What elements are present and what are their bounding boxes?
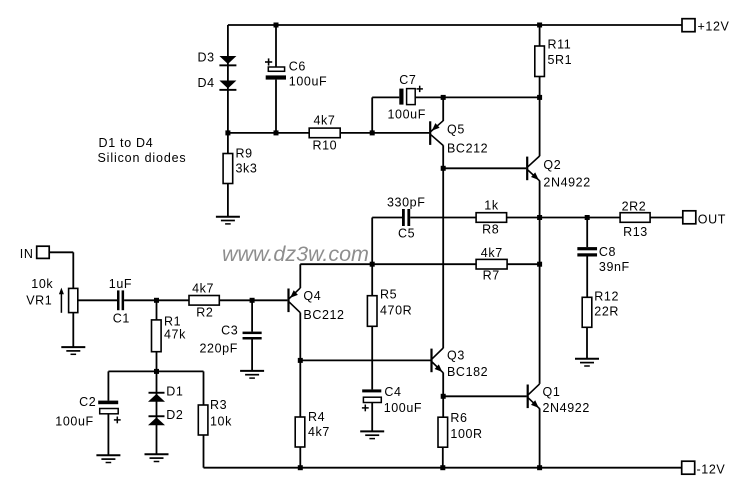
terminal OUT	[683, 211, 696, 224]
svg-text:5R1: 5R1	[548, 53, 573, 67]
junction Q1 emitter rail node	[537, 465, 542, 470]
capacitor C7	[399, 86, 423, 105]
svg-text:22R: 22R	[594, 305, 619, 319]
capacitor C6	[265, 58, 286, 79]
svg-text:C6: C6	[289, 60, 306, 74]
wire Q5 collector vertical	[442, 145, 444, 168]
svg-text:Q4: Q4	[303, 289, 321, 303]
resistor R10	[309, 128, 340, 138]
svg-text:-12V: -12V	[697, 463, 726, 477]
ground below D2	[145, 454, 169, 461]
wire R5 to C4	[371, 326, 373, 389]
wire R13 to OUT terminal	[650, 217, 683, 219]
junction R4 bottom rail node	[298, 465, 303, 470]
svg-text:100uF: 100uF	[289, 75, 327, 89]
resistor R12	[582, 297, 592, 327]
junction D4-R9 node	[225, 130, 230, 135]
junction R5 top node	[370, 262, 375, 267]
svg-text:R11: R11	[548, 38, 572, 52]
svg-text:C8: C8	[599, 245, 616, 259]
junction Q5 collector node	[441, 166, 446, 171]
ground below R12	[575, 359, 599, 366]
wire Q5 emitter vertical	[442, 97, 444, 121]
svg-text:Q2: Q2	[543, 158, 561, 172]
svg-text:100R: 100R	[450, 427, 482, 441]
resistor R11	[535, 46, 545, 77]
wire top +12V rail	[228, 24, 682, 26]
svg-text:D3: D3	[198, 51, 215, 65]
wire Q1 base	[443, 395, 527, 397]
svg-text:1k: 1k	[484, 199, 499, 213]
wire Q4 emitter vertical	[299, 264, 301, 288]
wire R4 lower stem	[299, 447, 301, 468]
transistor Q5	[429, 121, 443, 146]
junction C6 bottom node	[274, 130, 279, 135]
wire Q1 emitter vertical	[539, 409, 541, 468]
wire R5 upper stem	[371, 264, 373, 296]
svg-text:R7: R7	[483, 269, 500, 283]
wire R9 lower stem	[227, 184, 229, 217]
resistor R5	[367, 296, 377, 327]
wire C2 lower stem	[107, 414, 109, 456]
transistor Q1	[527, 384, 540, 409]
junction C3 top node	[250, 298, 255, 303]
svg-text:Q5: Q5	[447, 123, 465, 137]
resistor R7	[476, 259, 507, 269]
svg-text:BC212: BC212	[303, 308, 344, 322]
svg-text:BC182: BC182	[447, 365, 488, 379]
svg-text:C7: C7	[399, 73, 416, 87]
svg-text:220pF: 220pF	[200, 342, 238, 356]
diode D2	[148, 415, 165, 425]
svg-text:4k7: 4k7	[481, 246, 503, 260]
wire C8 lower stem	[586, 257, 588, 298]
svg-text:1uF: 1uF	[109, 277, 132, 291]
wire R9 upper stem	[227, 133, 229, 154]
svg-text:R10: R10	[313, 139, 338, 153]
wire Q3 emitter vertical	[442, 373, 444, 397]
capacitor C5	[402, 209, 410, 226]
wire R1 lower stem	[156, 352, 158, 372]
wire R8 to out node	[507, 217, 540, 219]
svg-text:C1: C1	[113, 312, 130, 326]
wire X372 C5-to-R7 segment	[371, 218, 373, 265]
resistor R4	[295, 417, 305, 447]
diode D3	[219, 56, 236, 66]
svg-text:R9: R9	[236, 147, 253, 161]
svg-text:+12V: +12V	[698, 20, 730, 34]
svg-text:2N4922: 2N4922	[543, 176, 590, 190]
wire R2 to Q4 base	[219, 299, 287, 301]
wire C4 to ground	[371, 403, 373, 432]
svg-text:330pF: 330pF	[387, 196, 425, 210]
svg-text:47k: 47k	[164, 328, 186, 342]
svg-text:D1 to D4: D1 to D4	[99, 136, 154, 150]
ground below C4	[360, 431, 384, 438]
wire node A to R2	[157, 299, 190, 301]
wire C3 lower stem	[251, 340, 253, 371]
svg-text:BC212: BC212	[447, 142, 488, 156]
wire Q3 collector vertical	[442, 168, 444, 348]
wire R7 row right	[507, 263, 539, 265]
svg-text:2R2: 2R2	[622, 200, 647, 214]
junction node A C1-R1-R2	[154, 298, 159, 303]
svg-text:4k7: 4k7	[314, 114, 336, 128]
svg-text:C2: C2	[79, 395, 96, 409]
resistor R13	[620, 213, 650, 223]
diode D4	[219, 81, 236, 91]
wire out row to C8 node	[540, 217, 621, 219]
junction C8 top node	[585, 215, 590, 220]
ground below C3	[240, 371, 264, 378]
capacitor C2	[98, 401, 121, 424]
wire X372 upper segment	[371, 97, 373, 132]
wire VR1 lower stem	[72, 313, 74, 348]
wire Q4 collector vertical	[299, 313, 301, 417]
wire X54 out-to-Q1 segment	[539, 218, 541, 384]
svg-text:OUT: OUT	[698, 213, 726, 227]
junction C6 top rail	[274, 23, 279, 28]
svg-text:2N4922: 2N4922	[543, 401, 590, 415]
svg-text:470R: 470R	[380, 304, 412, 318]
wire R1 upper stem	[156, 300, 158, 320]
svg-text:3k3: 3k3	[236, 162, 258, 176]
svg-text:39nF: 39nF	[599, 260, 630, 274]
wire R3 lower stem	[203, 435, 205, 468]
resistor R2	[189, 296, 219, 306]
svg-text:R8: R8	[482, 223, 499, 237]
junction OUT node	[537, 215, 542, 220]
svg-text:R12: R12	[594, 290, 619, 304]
wire R3 upper stem	[203, 371, 205, 405]
junction R11 bottom node	[537, 95, 542, 100]
wire R6 lower stem	[442, 447, 444, 468]
svg-text:R2: R2	[196, 306, 213, 320]
ground below C2	[96, 455, 120, 462]
resistor R6	[438, 417, 448, 447]
svg-text:R4: R4	[308, 410, 325, 424]
svg-text:4k7: 4k7	[308, 425, 330, 439]
wire R12 lower stem	[586, 327, 588, 359]
wire D1-D2 chain	[156, 371, 158, 454]
svg-text:IN: IN	[20, 247, 34, 261]
wire Q2 emitter vertical	[539, 181, 541, 218]
wire R10 row left	[228, 132, 309, 134]
capacitor C1	[117, 290, 124, 310]
wire bottom -12V rail	[204, 467, 683, 469]
svg-text:D2: D2	[166, 408, 183, 422]
wire Q4 emitter row	[300, 263, 372, 265]
transistor Q4	[287, 288, 300, 313]
junction R11 top rail	[537, 23, 542, 28]
svg-text:C4: C4	[384, 385, 401, 399]
svg-text:R3: R3	[210, 398, 227, 412]
wire C6 lower stem	[275, 80, 277, 133]
wire C8 upper stem	[586, 218, 588, 248]
wire C6 upper stem	[275, 25, 277, 67]
wire R6 upper stem	[442, 396, 444, 417]
svg-text:C5: C5	[398, 227, 415, 241]
wire D3-D4 chain vertical	[227, 25, 229, 133]
wire Q2 base	[443, 167, 526, 169]
wire R10 row right	[340, 132, 372, 134]
capacitor C3	[243, 332, 262, 340]
resistor R3	[198, 405, 208, 435]
wire C1 to node A	[124, 299, 156, 301]
wire C2 upper stem	[107, 371, 109, 400]
svg-text:10k: 10k	[210, 415, 232, 429]
svg-text:4k7: 4k7	[192, 282, 214, 296]
wire C3 upper stem	[251, 300, 253, 331]
ground below R9	[216, 217, 240, 224]
capacitor C4	[362, 389, 381, 411]
potentiometer VR1	[59, 288, 78, 313]
svg-text:Q3: Q3	[447, 349, 465, 363]
svg-text:100uF: 100uF	[388, 108, 426, 122]
svg-text:R1: R1	[164, 315, 181, 329]
svg-text:D4: D4	[198, 76, 215, 90]
resistor R9	[223, 154, 233, 184]
svg-text:www.dz3w.com: www.dz3w.com	[222, 242, 369, 266]
junction C7-Q5 emitter node	[441, 95, 446, 100]
svg-text:R6: R6	[450, 411, 467, 425]
svg-text:VR1: VR1	[26, 294, 52, 308]
terminal -12V	[682, 461, 695, 474]
wire C7 row right	[415, 96, 539, 98]
svg-text:Silicon diodes: Silicon diodes	[98, 151, 187, 165]
wire Q5 base	[372, 132, 429, 134]
capacitor C8	[577, 247, 597, 256]
wire bias row	[108, 370, 203, 372]
terminal IN	[37, 246, 50, 258]
wire Q3 base	[300, 359, 430, 361]
terminal +12V	[682, 19, 695, 32]
wire IN to VR1 horizontal	[49, 251, 73, 253]
wire IN to VR1 vertical	[72, 252, 74, 288]
resistor R8	[476, 213, 507, 223]
svg-text:R13: R13	[623, 225, 648, 239]
wire C5 row left	[372, 217, 402, 219]
wire VR1 wiper to C1	[78, 299, 117, 301]
junction R6 bottom rail node	[440, 465, 445, 470]
resistor R1	[152, 320, 162, 352]
svg-text:Q1: Q1	[543, 385, 561, 399]
wire R11 upper stem	[539, 25, 541, 46]
junction Q3 emitter node	[441, 394, 446, 399]
svg-text:100uF: 100uF	[384, 401, 422, 415]
ground below VR1	[61, 347, 85, 354]
wire R11 lower stem	[539, 77, 541, 98]
transistor Q3	[430, 348, 443, 373]
wire C5 to R8	[410, 217, 476, 219]
transistor Q2	[526, 156, 540, 181]
wire C7 row left	[372, 96, 399, 98]
junction Q4 collector node	[298, 358, 303, 363]
junction R10-C7 node	[370, 130, 375, 135]
svg-text:100uF: 100uF	[55, 415, 93, 429]
wire Q2 collector vertical	[539, 97, 541, 156]
wire R7 row left	[372, 263, 476, 265]
svg-text:R5: R5	[380, 288, 397, 302]
junction bias node R1-C2-D1-R3	[154, 369, 159, 374]
diode D1	[148, 392, 165, 402]
svg-text:C3: C3	[221, 324, 238, 338]
svg-text:10k: 10k	[31, 277, 53, 291]
junction R7 right node	[537, 262, 542, 267]
svg-text:D1: D1	[166, 385, 183, 399]
